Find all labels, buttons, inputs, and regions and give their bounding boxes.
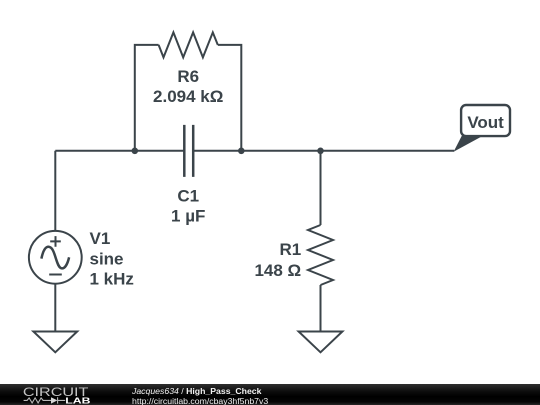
svg-text:1 µF: 1 µF — [171, 206, 205, 225]
svg-text:148 Ω: 148 Ω — [254, 261, 301, 280]
svg-text:R1: R1 — [279, 240, 301, 259]
svg-text:R6: R6 — [177, 67, 199, 86]
svg-text:C1: C1 — [177, 186, 199, 205]
svg-text:2.094 kΩ: 2.094 kΩ — [153, 87, 223, 106]
svg-text:Vout: Vout — [467, 113, 504, 132]
svg-text:LAB: LAB — [65, 395, 90, 405]
svg-text:V1: V1 — [90, 229, 111, 248]
svg-text:1 kHz: 1 kHz — [90, 270, 134, 289]
svg-text:sine: sine — [90, 250, 124, 269]
